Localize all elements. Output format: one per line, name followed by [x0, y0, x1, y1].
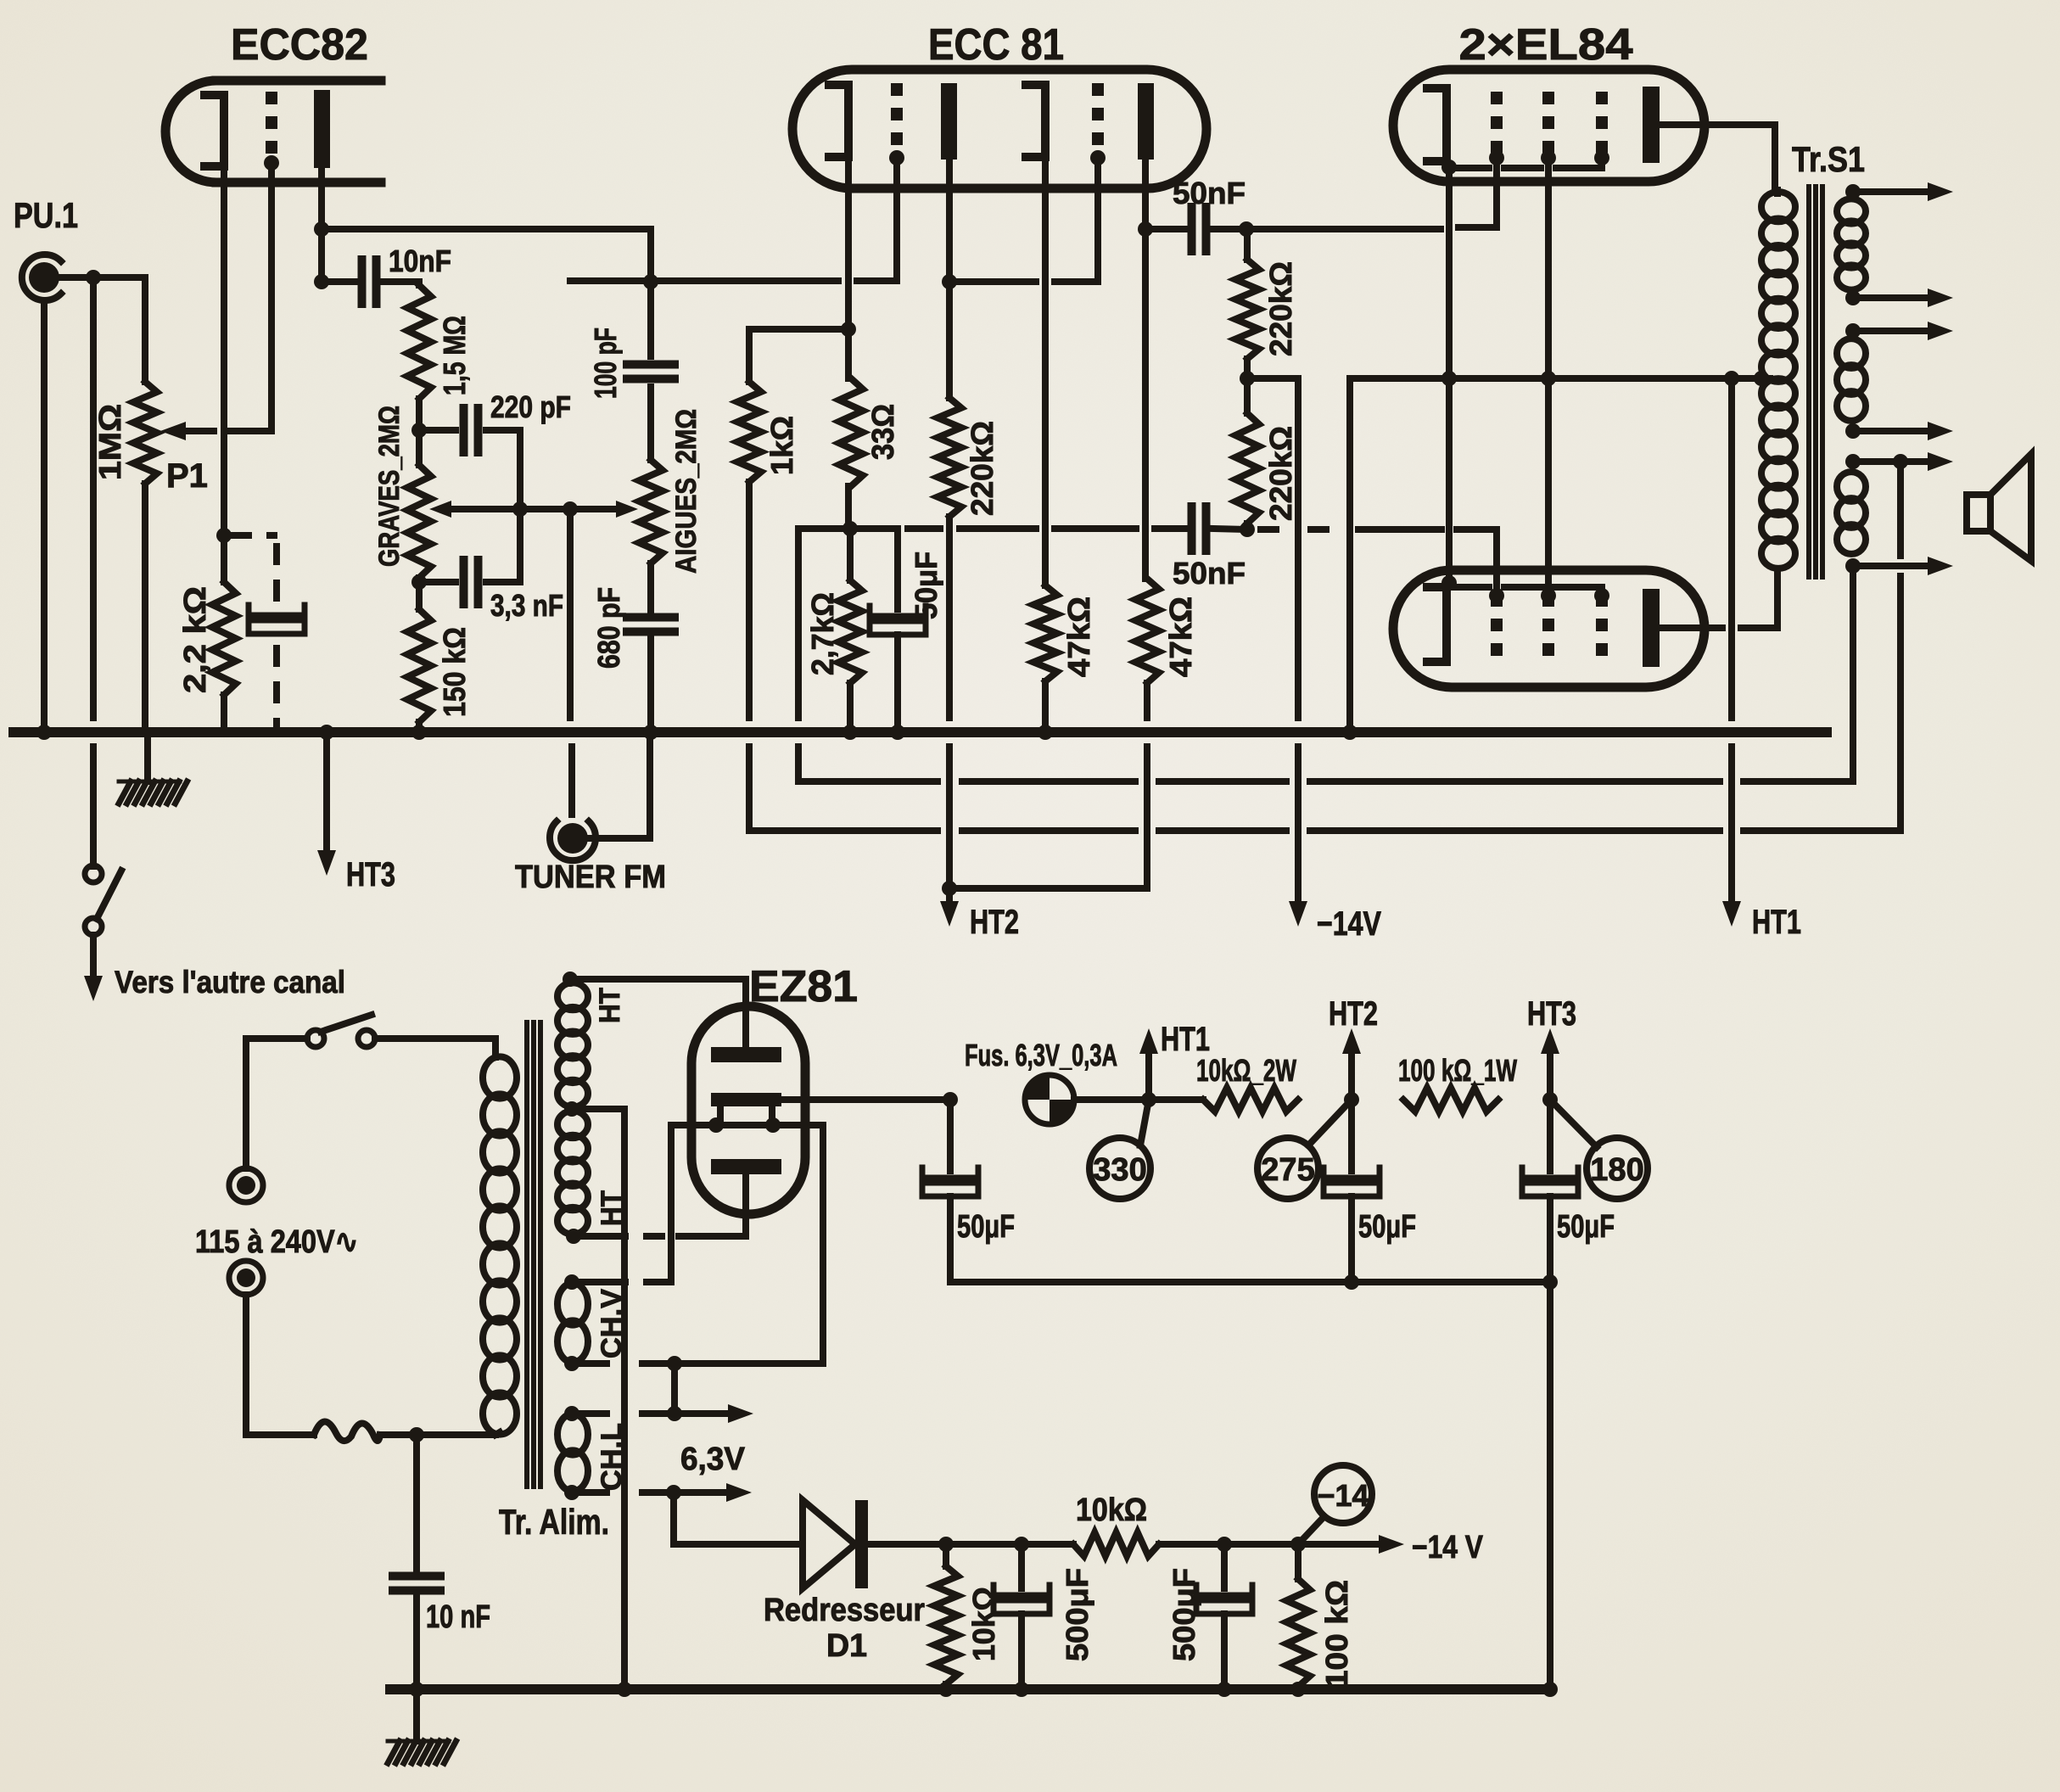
- svg-text:HT3: HT3: [346, 856, 395, 893]
- wire 150k to bus: [411, 722, 427, 740]
- resistor 100k 1W: [1403, 1088, 1498, 1112]
- svg-text:47kΩ: 47kΩ: [1061, 596, 1096, 677]
- wire fb dashes right: [1257, 529, 1497, 594]
- wire fb line y979: [749, 827, 1900, 834]
- wire HT3 long drop: [1547, 1282, 1553, 1689]
- arrow HT2 down: [940, 888, 959, 927]
- node 50nF out: [1239, 221, 1254, 237]
- svg-text:220kΩ: 220kΩ: [1263, 261, 1298, 356]
- tap HT bottom dashed: [566, 1174, 746, 1244]
- wire g1 down: [893, 158, 900, 281]
- ECC81 anode 2: [1138, 83, 1154, 160]
- EL84-1 grid2: [1541, 92, 1556, 165]
- EL84-2 cathode: [1427, 575, 1457, 662]
- bottom bus: [390, 1682, 1558, 1697]
- label 50uF no1: [957, 1209, 1015, 1245]
- label Vers l'autre canal: [115, 965, 345, 1000]
- potentiometer P1 1M: [133, 382, 157, 484]
- resistor 220k upper: [1235, 229, 1259, 359]
- label 220k lower: [1263, 426, 1298, 521]
- sec tap arrow 4: [1845, 422, 1953, 440]
- resistor 1.5M: [407, 285, 431, 399]
- label Tr.S1: [1792, 139, 1865, 179]
- label 10k vert: [966, 1587, 1001, 1661]
- capacitor 50uF no3: [1522, 1100, 1578, 1282]
- label 50uF cath: [909, 552, 943, 619]
- EZ81 heater wire: [671, 1117, 823, 1133]
- tube EZ81 label: [749, 962, 858, 1011]
- label HT1: [1161, 1021, 1210, 1058]
- svg-text:−14 V: −14 V: [1412, 1530, 1484, 1565]
- circle -14: [1298, 1465, 1372, 1544]
- sec tap arrow 3: [1845, 322, 1953, 340]
- svg-text:1kΩ: 1kΩ: [764, 416, 799, 475]
- wire wiper line: [512, 501, 624, 517]
- jack TUNER FM: [550, 821, 596, 860]
- ground symbol psu: [388, 1741, 456, 1763]
- circle 330: [1089, 1100, 1150, 1199]
- jack PU.1: [22, 255, 61, 300]
- wire centre tap line: [1342, 371, 1760, 740]
- wire HT1 rail: [1074, 1092, 1203, 1107]
- wire 100pF to aigues: [647, 387, 654, 460]
- wire switch to primary: [375, 1039, 495, 1057]
- arrow HT3 up: [1541, 1028, 1559, 1100]
- arrow -14V down: [1289, 901, 1307, 927]
- svg-text:Tr. Alim.: Tr. Alim.: [499, 1502, 609, 1542]
- label CHV: [596, 1289, 628, 1358]
- label 2.2k: [177, 586, 212, 693]
- svg-text:Fus. 6,3V_0,3A: Fus. 6,3V_0,3A: [965, 1038, 1117, 1072]
- label 10nF psu: [426, 1599, 490, 1635]
- wire fb B: [1897, 462, 1904, 831]
- tube EZ81 envelope: [691, 1006, 805, 1214]
- EL84-2 k-g3 strap: [1453, 587, 1602, 596]
- EL84-2 g2 stub: [1545, 570, 1552, 594]
- wire HT2 47k link: [949, 885, 1147, 892]
- capacitor 10nF coupling: [322, 260, 419, 304]
- svg-text:275: 275: [1261, 1152, 1314, 1188]
- wire tuner ground: [589, 732, 650, 838]
- label -14V: [1412, 1530, 1484, 1565]
- wire node right branch: [850, 529, 898, 609]
- capacitor 500uF no2: [1196, 1544, 1252, 1689]
- svg-text:HT1: HT1: [1752, 904, 1801, 941]
- resistor 10k vert: [934, 1544, 958, 1689]
- arrow HT2 up: [1342, 1028, 1361, 1100]
- capacitor 50nF lower: [908, 507, 1247, 551]
- sec tap arrow 1: [1845, 182, 1953, 201]
- wire anode1 to OPT: [1660, 125, 1775, 190]
- wire -14V feed: [1247, 378, 1298, 901]
- tube 2xEL84 label: [1459, 20, 1633, 70]
- wire a1 to g2: [960, 158, 1098, 282]
- label 10k bias: [1076, 1492, 1147, 1528]
- label fuse: [965, 1038, 1117, 1072]
- svg-text:500μF: 500μF: [1060, 1568, 1094, 1661]
- wire 1k bottom: [746, 482, 753, 831]
- ECC81 anode 1: [941, 83, 957, 160]
- label 50uF no2: [1358, 1209, 1416, 1245]
- svg-text:330: 330: [1093, 1152, 1146, 1188]
- wire mains bottom: [246, 1295, 314, 1435]
- svg-text:220 pF: 220 pF: [490, 389, 571, 424]
- OPT secondary s3: [1837, 472, 1866, 554]
- svg-text:100 kΩ_1W: 100 kΩ_1W: [1398, 1053, 1517, 1088]
- wire 50uF to bus: [890, 635, 905, 740]
- label redresseur: [764, 1593, 925, 1664]
- label 47k no2: [1163, 596, 1198, 677]
- wire ECC82 anode down: [314, 168, 329, 289]
- svg-text:P1: P1: [166, 457, 208, 495]
- ECC81 grid 1: [889, 83, 904, 165]
- wire wiper drop: [567, 509, 574, 718]
- speaker: [1967, 454, 2031, 561]
- terminal mains 1: [229, 1168, 263, 1202]
- wire anode bus upper: [322, 226, 651, 232]
- capacitor 100pF: [627, 365, 675, 379]
- svg-text:10kΩ: 10kΩ: [1076, 1492, 1147, 1528]
- svg-text:−14: −14: [1317, 1478, 1369, 1513]
- label 115-240V: [195, 1224, 358, 1260]
- OPT core: [1809, 187, 1822, 577]
- resistor 220k lower: [1235, 413, 1259, 524]
- tap CHV bottom: [564, 1125, 823, 1414]
- EL84-1 k-g3 strap: [1453, 158, 1602, 168]
- label HT3 top: [346, 856, 395, 893]
- label 500uF no2: [1167, 1568, 1201, 1661]
- svg-text:47kΩ: 47kΩ: [1163, 596, 1198, 677]
- aigues wiper arrow: [616, 501, 638, 518]
- wire ECC82 cathode to 2.2k: [221, 166, 227, 582]
- svg-text:680 pF: 680 pF: [591, 587, 626, 669]
- label -14V top: [1317, 905, 1381, 943]
- PT sec HT1: [557, 983, 588, 1106]
- capacitor 680pF: [627, 618, 675, 632]
- label 6.3V: [680, 1442, 746, 1477]
- svg-text:500μF: 500μF: [1167, 1568, 1201, 1661]
- svg-text:50μF: 50μF: [1358, 1209, 1416, 1245]
- svg-text:2,7kΩ: 2,7kΩ: [805, 592, 840, 675]
- ECC82 cathode: [204, 95, 224, 166]
- svg-text:2×EL84: 2×EL84: [1459, 20, 1633, 70]
- label 2.7k: [805, 592, 840, 675]
- PT sec CHV: [557, 1283, 588, 1362]
- label HT3: [1527, 995, 1576, 1033]
- wire bias rail: [674, 1537, 1073, 1552]
- ECC81 cathode 1: [829, 85, 848, 157]
- OPT secondary s1: [1837, 199, 1866, 289]
- label Tr Alim: [499, 1502, 609, 1542]
- svg-text:D1: D1: [826, 1628, 867, 1664]
- svg-text:33Ω: 33Ω: [865, 404, 900, 460]
- svg-text:2,2 kΩ: 2,2 kΩ: [177, 586, 212, 693]
- label 1M: [92, 404, 127, 480]
- resistor 10k 2W: [1203, 1088, 1298, 1112]
- wire node left branch: [798, 529, 850, 781]
- sec tap arrow 2: [1845, 288, 1953, 307]
- resistor 10k bias: [1073, 1532, 1159, 1556]
- label 680pF: [591, 587, 626, 669]
- wire fb A: [1850, 566, 1856, 781]
- ground bus: [14, 727, 1827, 737]
- svg-text:ECC82: ECC82: [231, 20, 368, 70]
- potentiometer AIGUES 2M: [639, 460, 663, 563]
- wire aigues chain top: [643, 274, 658, 356]
- node HT3 psu: [1542, 1092, 1558, 1107]
- wire aigues to 680pF: [647, 563, 654, 613]
- wire 47k2 down: [1144, 683, 1150, 888]
- switch S1: [85, 865, 121, 935]
- label 100k vert: [1319, 1580, 1354, 1688]
- svg-text:AIGUES_2MΩ: AIGUES_2MΩ: [670, 409, 703, 574]
- svg-text:100 kΩ: 100 kΩ: [1319, 1580, 1354, 1688]
- wire 50uF bus: [950, 1274, 1558, 1290]
- wire fuse to primary: [380, 1427, 495, 1442]
- wire a1 down: [942, 160, 957, 398]
- label 10nF: [389, 244, 451, 278]
- resistor 2.7k: [838, 529, 862, 683]
- tube ECC82 label: [231, 20, 368, 70]
- svg-text:180: 180: [1590, 1152, 1643, 1188]
- label 50nF lower: [1173, 556, 1246, 591]
- svg-text:HT2: HT2: [970, 904, 1019, 941]
- ECC81 cathode 2: [1026, 85, 1045, 157]
- resistor 2.2k: [212, 582, 236, 695]
- label HT2 top: [970, 904, 1019, 941]
- wire fb line y921: [798, 778, 1853, 785]
- label 3.3nF: [490, 588, 563, 623]
- capacitor 50uF cathode: [870, 606, 926, 635]
- svg-text:HT: HT: [594, 988, 626, 1023]
- wire 680pF to bus: [643, 636, 658, 740]
- PT primary bottom lead: [495, 1432, 500, 1435]
- EL84-1 anode: [1643, 87, 1660, 163]
- wire mains top: [246, 1039, 307, 1168]
- ground symbol: [119, 781, 188, 804]
- label 500uF no1: [1060, 1568, 1094, 1661]
- wire grid to P1 wiper: [160, 422, 271, 440]
- EL84-1 cathode: [1427, 88, 1457, 175]
- node 220k mid: [1240, 359, 1255, 413]
- label 220k anode1: [965, 421, 999, 516]
- label HT wind2: [596, 1190, 628, 1226]
- arrow -14V: [1298, 1535, 1404, 1554]
- label 220k upper: [1263, 261, 1298, 356]
- capacitor 220pF: [419, 408, 520, 452]
- wire k2 down: [1042, 157, 1049, 585]
- tap HT top: [563, 972, 746, 1047]
- label 33: [865, 404, 900, 460]
- wire 1.5M-graves node: [411, 399, 427, 465]
- tube ECC81 label: [928, 20, 1064, 70]
- ground drop: [144, 732, 151, 781]
- capacitor 10nF psu: [393, 1435, 440, 1689]
- label HT wind1: [594, 988, 626, 1023]
- resistor 47k no2: [1135, 579, 1159, 683]
- tap CHL top 6.3V: [564, 1404, 753, 1423]
- tap CHL bottom: [564, 1483, 752, 1544]
- OPT centre tap: [1754, 371, 1770, 386]
- EL84-2 grid1: [1489, 588, 1504, 663]
- svg-text:10nF: 10nF: [389, 244, 451, 278]
- svg-text:10 nF: 10 nF: [426, 1599, 490, 1635]
- capacitor 50uF no2: [1324, 1100, 1380, 1282]
- svg-text:1MΩ: 1MΩ: [92, 404, 127, 480]
- tube ECC82 envelope: [165, 81, 381, 182]
- ECC82 grid: [264, 92, 279, 171]
- EL84-1 grid3: [1594, 92, 1609, 165]
- svg-text:10kΩ_2W: 10kΩ_2W: [1196, 1053, 1296, 1088]
- svg-text:ECC 81: ECC 81: [928, 20, 1064, 70]
- svg-text:GRAVES_2MΩ: GRAVES_2MΩ: [373, 406, 406, 567]
- resistor 220k anode1: [938, 398, 961, 517]
- svg-text:Redresseur: Redresseur: [764, 1593, 925, 1628]
- EL84-2 grid2: [1541, 588, 1556, 663]
- wire 2.2k to bus: [216, 528, 232, 732]
- label GRAVES: [373, 406, 406, 567]
- capacitor 3.3nF: [419, 560, 520, 604]
- label 47k no1: [1061, 596, 1096, 677]
- wire P1 bottom to bus: [142, 484, 148, 732]
- sec tap arrow 5: [1845, 452, 1953, 471]
- circle 180: [1550, 1100, 1648, 1199]
- svg-text:50nF: 50nF: [1173, 176, 1246, 210]
- svg-text:220kΩ: 220kΩ: [965, 421, 999, 516]
- EZ81 anode bottom: [711, 1159, 781, 1236]
- node HT2 psu: [1344, 1092, 1359, 1107]
- node 220k bottom: [1240, 522, 1255, 537]
- svg-text:50μF: 50μF: [957, 1209, 1015, 1245]
- EL84-2 grid3: [1594, 588, 1609, 663]
- terminal mains 2: [229, 1261, 263, 1295]
- wire k1 down: [841, 157, 856, 378]
- label 50uF no3: [1557, 1209, 1615, 1245]
- resistor 100k vert: [1286, 1544, 1310, 1689]
- EZ81 anode top: [711, 1047, 781, 1062]
- resistor 1k: [737, 382, 761, 482]
- wire grid bus y331: [570, 277, 897, 284]
- potentiometer GRAVES 2M: [407, 465, 431, 578]
- wire k line down: [1446, 167, 1453, 583]
- wire switch down: [90, 935, 97, 984]
- label AIGUES: [670, 409, 703, 574]
- circle 275: [1257, 1100, 1352, 1199]
- resistor 47k no1: [1033, 585, 1057, 681]
- svg-text:−14V: −14V: [1317, 905, 1381, 943]
- EL84-2 anode: [1643, 589, 1660, 667]
- ground drop psu: [413, 1689, 420, 1741]
- arrow HT3: [317, 850, 336, 876]
- svg-text:1,5 MΩ: 1,5 MΩ: [437, 316, 472, 395]
- svg-text:6,3V: 6,3V: [680, 1442, 746, 1477]
- PT primary coil: [483, 1056, 517, 1434]
- wire 47k1 to bus: [1038, 681, 1053, 740]
- wire g2 line down: [1545, 158, 1552, 570]
- wire node down to switch: [90, 277, 97, 866]
- svg-text:HT2: HT2: [1329, 995, 1378, 1033]
- wire jack to node: [59, 270, 145, 285]
- wire bias rail 2: [1159, 1537, 1306, 1552]
- EL84-1 grid1: [1489, 92, 1504, 165]
- label 1k: [764, 416, 799, 475]
- wire graves-150k node: [411, 574, 427, 609]
- svg-text:HT3: HT3: [1527, 995, 1576, 1033]
- OPT secondary s2: [1837, 339, 1866, 421]
- tap HT mid: [564, 1101, 624, 1689]
- wire 33 to node: [845, 486, 852, 529]
- label P1: [166, 457, 208, 495]
- sec tap arrow 6: [1845, 557, 1953, 575]
- tube ECC81 envelope: [792, 70, 1206, 188]
- PT sec HT2: [557, 1111, 588, 1234]
- node k1 bias: [842, 521, 858, 536]
- capacitor 50nF top: [1145, 207, 1246, 251]
- ECC82 anode: [314, 90, 330, 168]
- wire tuner jack top: [568, 747, 575, 815]
- fuse 6.3V 0.3A: [1025, 1075, 1074, 1124]
- graves wiper arrow: [429, 501, 570, 518]
- diode D1 redresseur: [803, 1500, 868, 1588]
- svg-text:3,3 nF: 3,3 nF: [490, 588, 563, 623]
- capacitor 500uF no1: [994, 1544, 1050, 1689]
- wire HT1 drop: [1728, 378, 1735, 901]
- capacitor cathode bypass: [249, 605, 305, 634]
- PT sec CHL: [557, 1414, 588, 1491]
- wire to EL84 grid1: [1246, 158, 1497, 229]
- label TUNER FM: [515, 860, 666, 895]
- PT core: [527, 1022, 540, 1487]
- label 100k 1W: [1398, 1053, 1517, 1088]
- label 50nF top: [1173, 176, 1246, 210]
- wire anode2 to OPT: [1660, 569, 1777, 628]
- label HT2: [1329, 995, 1378, 1033]
- wire 2.7k to bus: [842, 683, 858, 740]
- wire to P1 top: [142, 277, 148, 382]
- OPT primary top lead: [1774, 190, 1781, 193]
- fuse mains: [314, 1421, 380, 1441]
- wire 10nF to 1.5M: [416, 282, 423, 285]
- wire 220k to HT2: [942, 517, 957, 896]
- label CHL: [596, 1423, 628, 1491]
- svg-text:220kΩ: 220kΩ: [1263, 426, 1298, 521]
- label 100pF: [588, 328, 623, 399]
- svg-text:50μF: 50μF: [909, 552, 943, 619]
- wire riser: [647, 229, 654, 281]
- svg-text:50μF: 50μF: [1557, 1209, 1615, 1245]
- tap CHV top: [564, 1125, 671, 1290]
- label 10k 2W: [1196, 1053, 1296, 1088]
- tube EL84 no1 envelope: [1393, 70, 1705, 182]
- svg-text:Vers l'autre canal: Vers l'autre canal: [115, 965, 345, 1000]
- wire 1k top: [749, 329, 848, 382]
- svg-text:PU.1: PU.1: [14, 195, 78, 235]
- switch mains: [307, 1015, 375, 1047]
- svg-text:100 pF: 100 pF: [588, 328, 623, 399]
- svg-text:TUNER FM: TUNER FM: [515, 860, 666, 895]
- svg-text:Tr.S1: Tr.S1: [1792, 139, 1865, 179]
- label 1.5M: [437, 316, 472, 395]
- arrow other channel: [84, 976, 103, 1001]
- ECC81 grid 2: [1090, 83, 1106, 165]
- wire a2 down: [1138, 160, 1153, 579]
- svg-text:115 à 240V∿: 115 à 240V∿: [195, 1224, 358, 1260]
- arrow HT1 up: [1139, 1028, 1158, 1100]
- wire EZ81 cathode out: [781, 1092, 958, 1107]
- label PU.1: [14, 195, 78, 235]
- resistor 33: [839, 378, 863, 486]
- wire ECC82 grid down: [268, 163, 275, 431]
